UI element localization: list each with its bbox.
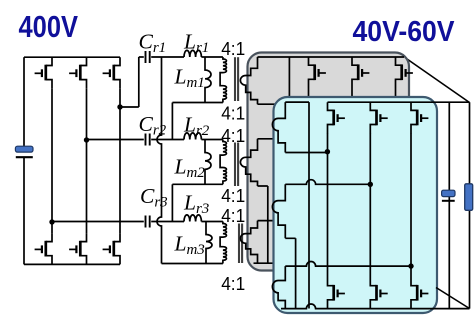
svg-text:4:1: 4:1 [221,104,245,124]
cyan module secondary winding S1 (T1) [272,102,285,152]
wire: gray module bottom bus [254,262,405,264]
cyan module secondary winding S2 (T2) [272,184,285,238]
wire: gray S3 top lead [258,220,291,222]
wire: cyan S1 top lead and long drop to bottom bus [285,102,309,308]
node: leg1 midpoint junction [49,219,54,224]
wire: output right bus [469,102,471,308]
capacitor Cr3 [145,216,147,228]
transistor QG1 (gray module SR FET1) [309,57,315,65]
wire: gray S2 bottom lead and drop [258,186,268,263]
gray module secondary winding S3 (T3) [240,221,257,264]
wire: column1 upper [327,133,329,152]
input capacitor Cin plate 1 [15,146,33,152]
capacitor Cr2 [145,134,147,146]
node: column2 junction [368,182,373,187]
transistor Q4 (leg2 low-side MOSFET) [80,233,86,241]
wire: gray S1 top-lead drop [288,57,290,99]
node: column1 junction [325,149,330,154]
gray module secondary winding S2 (T2) [240,139,257,186]
wire: column1 lower [327,152,329,278]
inductor Lr3 [184,215,201,222]
wire: Lr2 to primary T2 [201,139,223,141]
transistor QG2 (gray module SR FET2) [352,57,358,65]
node: leg2 midpoint junction [84,137,89,142]
wire: Cr3 to Lr3 [151,221,184,223]
transistor QC6 (cyan SR FET3 bottom) [411,278,417,286]
transistor Q1 (leg1 high-side MOSFET) [46,57,52,65]
transformer T1 primary winding [220,57,226,103]
wire: gray S2 top lead [258,138,291,140]
transformer T3 core [238,224,240,264]
wire: cyan S3 top lead with hop to column3 [285,262,411,267]
hidden module M3 bottom diagonal edge [436,288,470,309]
wire: leg1 midpoint segment [51,88,53,233]
transformer T2 core [234,143,236,187]
wire: leg2 midpoint to Cr2 [87,139,144,141]
wire: positive DC rail [24,56,120,58]
capacitor Co' (hidden module) plate 1 [442,190,455,196]
wire: leg2 midpoint segment [86,88,88,233]
hidden module M3 outline fill [404,57,470,309]
wire: column3 upper [410,133,412,266]
wire: column2 lower [369,184,371,277]
transistor Q2 (leg1 low-side MOSFET) [46,233,52,241]
wire: leg1 midpoint to Cr3 [52,221,144,223]
transistor QC1 (cyan SR FET1 top) [328,102,334,110]
svg-text:4:1: 4:1 [221,126,245,146]
wire: phase2 return line [172,183,223,185]
wire: gray SR FET1 source stub [308,88,310,99]
svg-text:4:1: 4:1 [221,186,245,206]
rectifier module M2 box (cyan) [274,97,438,313]
wire: cyan S1 bottom lead to column1 [285,152,327,154]
inductor Lm3 (magnetizing) [206,222,212,264]
svg-text:400V: 400V [19,9,79,44]
transistor QC5 (cyan SR FET2 bottom) [370,278,376,286]
node: column3 junction [408,263,413,268]
transistor QC3 (cyan SR FET3 top) [411,102,417,110]
wire: phase1 into Cr1 [139,56,144,58]
wire: gray SR FET3 source stub [395,88,397,99]
svg-text:4:1: 4:1 [221,274,245,294]
wire: negative DC rail [24,263,120,265]
wire: phase1 return drop to Cr2 node [171,103,173,140]
svg-text:40V-60V: 40V-60V [353,16,456,48]
input capacitor Cin plate 2 [16,156,33,158]
wire: Lr1 to primary T1 [201,56,223,58]
wire: Cr1 to Lr1 [151,56,184,58]
wire: phase1 riser up to Cr1 [138,57,140,107]
transformer T3 primary winding [220,222,226,264]
wire: gray module top bus [258,56,405,58]
wire: gray S1 bottom lead [258,104,300,152]
wire: cyan module top bus [328,101,470,103]
wire: DC bus left (above input cap) [23,57,25,146]
wire: phase2 return drop to Cr3 node [171,184,173,221]
wire: DC bus left (below input cap) [23,157,25,265]
hidden module M3 top diagonal edge [402,56,470,103]
inductor Lm1 (magnetizing) [205,57,211,103]
transistor QC2 (cyan SR FET2 top) [370,102,376,110]
capacitor Cr1 [145,51,147,63]
wire: cyan module bottom bus with hop [281,304,470,309]
svg-text:4:1: 4:1 [221,206,245,226]
wire: leg3 midpoint segment [119,88,121,233]
wire: Lr3 to primary T3 [201,221,223,223]
wire: phase3 return riser with crossover hops [157,57,162,264]
output capacitor Co [465,184,473,211]
wire: cyan S2 bottom lead and drop [285,238,295,308]
wire: hidden module output branch [448,102,450,308]
transistor QC4 (cyan SR FET1 bottom) [328,278,334,286]
inductor Lr2 [184,133,201,140]
cyan module secondary winding S3 (T3) [272,266,285,308]
wire: phase1 return line [172,102,223,104]
wire: leg3 midpoint to phase1 riser [120,106,139,108]
inductor Lm2 (magnetizing) [205,140,211,185]
wire: cyan S2 top lead with hop to column2 [285,180,370,185]
transistor Q3 (leg2 high-side MOSFET) [80,57,86,65]
gray module secondary winding S1 (T1) [240,57,257,104]
wire: Cr2 to Lr2 [151,139,184,141]
wire: column2 upper [369,133,371,184]
wire: phase3 return line [162,263,223,265]
svg-text:4:1: 4:1 [221,39,245,59]
rectifier module M1 box (gray) [248,53,410,271]
transformer T2 primary winding [220,140,226,185]
transistor QG3 (gray module SR FET3) [396,57,402,65]
transistor Q5 (leg3 high-side MOSFET) [114,57,120,65]
capacitor Co' (hidden module) plate 2 [442,200,455,202]
wire: column3 lower [410,266,412,277]
transistor Q6 (leg3 low-side MOSFET) [114,233,120,241]
transformer T1 core [234,57,236,101]
wire: gray SR FET2 source stub [351,88,353,99]
node: leg3 midpoint junction [117,104,122,109]
inductor Lr1 [184,50,201,57]
